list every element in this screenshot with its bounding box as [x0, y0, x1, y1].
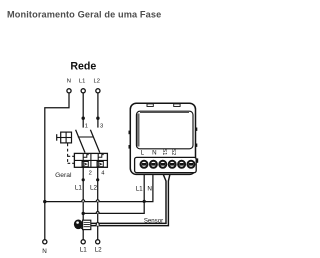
- svg-text:Rede: Rede: [70, 60, 96, 72]
- svg-text:N: N: [67, 78, 71, 84]
- svg-text:L1: L1: [75, 184, 83, 191]
- svg-text:3: 3: [100, 123, 103, 129]
- svg-text:L: L: [141, 149, 145, 156]
- svg-text:L2: L2: [95, 247, 103, 254]
- svg-text:L2: L2: [90, 184, 98, 191]
- svg-text:N: N: [147, 185, 152, 192]
- svg-text:Geral: Geral: [55, 172, 72, 179]
- svg-text:Sensor: Sensor: [144, 217, 163, 224]
- svg-text:N: N: [42, 248, 47, 255]
- svg-text:L1: L1: [136, 185, 144, 192]
- svg-text:L1: L1: [79, 78, 85, 84]
- svg-text:Monitoramento Geral de uma Fas: Monitoramento Geral de uma Fase: [7, 10, 161, 20]
- svg-text:S2: S2: [170, 149, 176, 156]
- svg-text:N: N: [152, 149, 156, 156]
- svg-text:2: 2: [89, 171, 92, 177]
- svg-text:1: 1: [85, 123, 88, 129]
- svg-text:L1: L1: [80, 247, 88, 254]
- svg-text:L2: L2: [93, 78, 99, 84]
- svg-text:S1: S1: [161, 149, 167, 156]
